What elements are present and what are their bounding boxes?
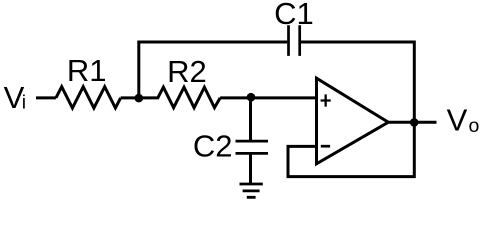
wire node A up and top feedback to C1 [139, 42, 287, 99]
op-amp U1 [317, 78, 389, 164]
op-amp plus pin symbol [321, 94, 331, 106]
node A junction dot [135, 94, 144, 103]
wire R2 to node B and op-amp plus input [220, 96, 316, 99]
wire output node to Vo [414, 121, 436, 124]
wire op-amp output to node [388, 121, 414, 124]
svg-text:R2: R2 [167, 54, 207, 89]
svg-text:C2: C2 [193, 128, 233, 163]
wire C2 to ground [249, 153, 252, 184]
op-amp minus pin symbol [321, 145, 330, 148]
svg-text:o: o [469, 115, 480, 137]
ground [240, 184, 263, 197]
svg-text:V: V [447, 102, 468, 137]
wire Vi input stub [36, 96, 56, 99]
wire C1 to right vertical, down, feedback loop to op-amp minus input [288, 42, 414, 177]
svg-text:R1: R1 [67, 53, 107, 88]
capacitor C1 [289, 25, 300, 56]
resistor R1 [56, 87, 121, 108]
svg-text:i: i [22, 92, 26, 114]
resistor R2 [139, 87, 220, 108]
wire node B down to C2 [249, 98, 252, 141]
node B junction dot [247, 93, 256, 102]
capacitor C2 [236, 141, 269, 153]
svg-text:C1: C1 [274, 0, 314, 31]
wire R1 to node A [121, 96, 141, 99]
output node junction dot [410, 118, 419, 127]
